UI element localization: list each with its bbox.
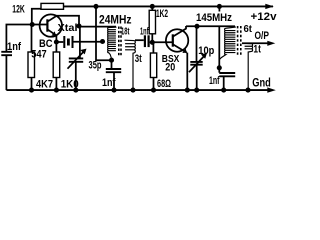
- transformer T2 core: [237, 26, 239, 57]
- node BSX base junction: [150, 40, 155, 45]
- node emitter ground: [185, 88, 190, 93]
- node 145 coil bottom junction: [217, 65, 222, 70]
- node emitter junction: [54, 39, 59, 44]
- svg-text:10p: 10p: [198, 45, 214, 57]
- node top rail junction 2: [150, 4, 155, 9]
- wire collector to coil top: [79, 26, 116, 28]
- wire 145 tank drop: [218, 26, 220, 68]
- capacitor trimmer 10p: [196, 26, 198, 61]
- resistor R4 1K2: [151, 6, 153, 10]
- node 35p ground: [73, 88, 78, 93]
- svg-text:6t: 6t: [244, 23, 253, 35]
- svg-text:145MHz: 145MHz: [196, 12, 232, 24]
- transformer T1 core: [118, 27, 120, 58]
- svg-text:1nf: 1nf: [140, 25, 149, 37]
- node 4K7 ground: [29, 88, 34, 93]
- svg-text:1nf: 1nf: [102, 77, 116, 89]
- svg-text:+12v: +12v: [251, 11, 278, 23]
- svg-text:3t: 3t: [135, 53, 142, 65]
- svg-text:1nf: 1nf: [209, 75, 220, 87]
- node top rail junction 3: [217, 4, 222, 9]
- svg-text:35p: 35p: [89, 59, 102, 71]
- resistor R2 4K7: [31, 25, 33, 53]
- wire rail stub behind 145MHz label: [218, 6, 220, 11]
- svg-text:18t: 18t: [121, 25, 130, 37]
- wire collector: [56, 16, 79, 26]
- transistor Q1 BC547: [40, 14, 62, 36]
- resistor R1 12K: [41, 3, 64, 9]
- capacitor trimmer 35p: [79, 26, 81, 58]
- svg-text:Gnd: Gnd: [252, 77, 270, 89]
- capacitor C2 1nf (tank bypass): [111, 60, 113, 69]
- +12v arrow: [265, 4, 274, 9]
- node 3t ground: [130, 88, 135, 93]
- wire output: [242, 42, 268, 44]
- inductor L1 primary 18t: [108, 27, 117, 58]
- node 68R ground: [151, 88, 156, 93]
- wire rail drop to coil bottom: [96, 6, 112, 60]
- node base junction: [30, 22, 35, 27]
- node 10p ground: [194, 88, 199, 93]
- node collector 10p junction: [194, 24, 199, 29]
- svg-text:1t: 1t: [253, 43, 261, 55]
- svg-text:20: 20: [165, 62, 175, 74]
- node 1t ground: [245, 88, 250, 93]
- svg-text:1K2: 1K2: [156, 8, 168, 20]
- svg-text:Xtal: Xtal: [58, 22, 78, 34]
- ground arrow: [267, 87, 276, 92]
- transistor Q2 BSX20: [166, 29, 188, 51]
- node collector junction: [76, 23, 81, 28]
- crystal X1: [56, 41, 63, 43]
- wire top rail: [64, 5, 274, 7]
- capacitor C4 1nf (145 tank bypass): [218, 68, 220, 73]
- wire 12K left lead: [32, 9, 41, 25]
- svg-text:4K7: 4K7: [36, 78, 53, 90]
- svg-text:68Ω: 68Ω: [157, 78, 171, 90]
- node coil bottom junction: [109, 58, 114, 63]
- node 1K0 ground: [54, 88, 59, 93]
- wire crystal to coil tap: [74, 41, 103, 43]
- node top rail junction 1: [93, 4, 98, 9]
- node C4 ground: [221, 88, 226, 93]
- wire BSX collector: [186, 25, 235, 27]
- node C2 ground: [111, 88, 116, 93]
- svg-text:1nf: 1nf: [7, 41, 21, 53]
- svg-text:547: 547: [31, 49, 47, 61]
- resistor R5 68R: [152, 42, 154, 53]
- wire base: [6, 25, 47, 52]
- inductor L3 primary 6t: [219, 27, 235, 60]
- node coil tap: [100, 39, 105, 44]
- capacitor C1 1nf (base bypass): [1, 52, 12, 55]
- wire bottom rail: [6, 89, 268, 91]
- inductor L2 secondary 3t: [125, 40, 136, 90]
- svg-text:12K: 12K: [12, 4, 25, 16]
- capacitor C3 1nf coupling: [135, 39, 144, 41]
- inductor L4 secondary 1t: [244, 43, 253, 90]
- svg-text:O/P: O/P: [255, 30, 270, 42]
- output arrow O/P: [267, 41, 275, 46]
- resistor R3 1K0: [55, 42, 57, 52]
